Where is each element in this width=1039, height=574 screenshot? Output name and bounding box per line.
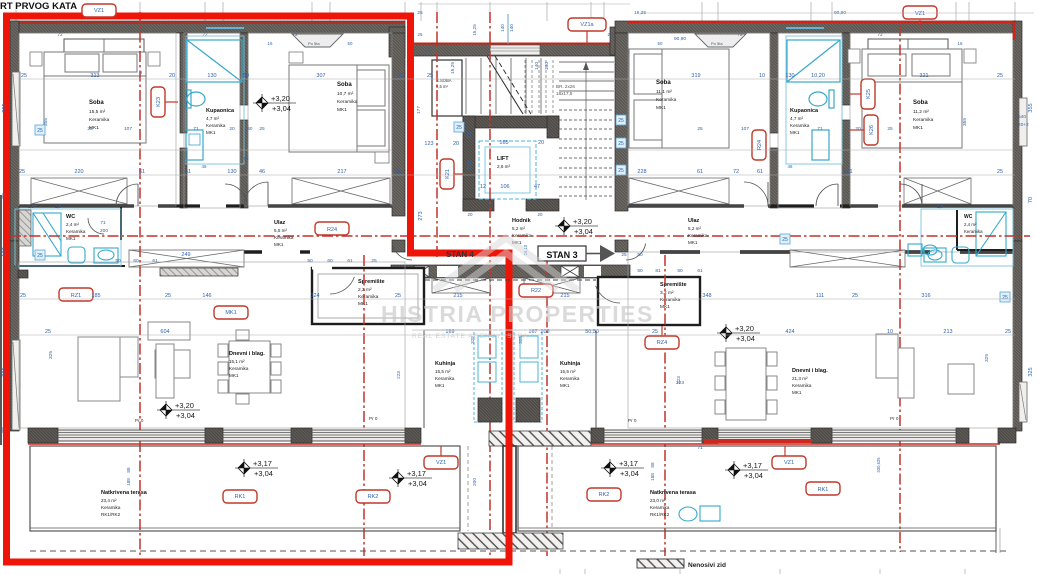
svg-text:20: 20 [468, 212, 473, 217]
label K23 bedroom1 [151, 87, 165, 117]
headboard room1 [64, 39, 144, 52]
nightstand bed1 [30, 52, 42, 66]
center top leader line blue [507, 14, 509, 44]
WC left tiled outline [15, 209, 121, 266]
svg-text:25: 25 [19, 169, 25, 175]
WC left walls [14, 206, 125, 266]
level living right [725, 324, 727, 342]
svg-text:140: 140 [500, 24, 505, 32]
top exterior wall center recessed segment [408, 44, 628, 56]
svg-text:Keramika: Keramika [656, 97, 677, 103]
stair cut diagonal [487, 56, 523, 114]
svg-text:LIFT: LIFT [497, 156, 509, 162]
corridor bottom wall right apt [660, 250, 1013, 253]
central hatched divider band [489, 431, 591, 446]
svg-text:25: 25 [20, 293, 26, 299]
svg-text:VZ1: VZ1 [436, 460, 446, 466]
svg-text:70: 70 [2, 427, 8, 433]
dining table left apt [218, 330, 281, 404]
bathroom1 washer [186, 130, 203, 160]
terrace levels [243, 459, 245, 477]
svg-text:88: 88 [126, 467, 131, 473]
lift shaft walls [463, 116, 559, 128]
left divider wall stub below door [392, 240, 405, 252]
door gap central band 2 [584, 266, 601, 277]
svg-text:88: 88 [650, 462, 655, 468]
svg-text:348: 348 [702, 293, 711, 299]
x-box in central band 2 [561, 266, 579, 277]
svg-text:STAN 3: STAN 3 [546, 250, 577, 260]
svg-text:Keramika: Keramika [337, 99, 358, 105]
sofa right apt [876, 334, 974, 398]
svg-text:185: 185 [91, 293, 100, 299]
svg-text:46: 46 [259, 169, 265, 175]
svg-text:VZ1: VZ1 [784, 460, 794, 466]
svg-text:16: 16 [268, 41, 273, 46]
svg-text:321: 321 [919, 73, 928, 79]
spremiste left room [312, 268, 424, 324]
bed 1 left bedroom [44, 52, 146, 143]
svg-text:Ulaz: Ulaz [688, 218, 700, 224]
label R24 mirror right [752, 130, 766, 160]
svg-text:355: 355 [2, 103, 8, 112]
wardrobe band bedroom4 [904, 178, 971, 204]
svg-text:130: 130 [785, 73, 794, 79]
svg-text:200: 200 [100, 228, 108, 234]
svg-text:Dnevni i blag.: Dnevni i blag. [229, 351, 265, 357]
svg-text:Soba: Soba [913, 100, 928, 106]
label RK2 terrace left [356, 490, 390, 503]
tv unit left apt [148, 322, 190, 398]
svg-text:R22: R22 [531, 288, 541, 294]
wall bathroom1/bedroom2 [240, 33, 248, 105]
svg-text:61: 61 [697, 268, 703, 274]
svg-text:4,7 m²: 4,7 m² [790, 116, 803, 121]
svg-text:71: 71 [100, 220, 106, 226]
svg-text:313: 313 [90, 73, 99, 79]
spremiste left inner line [318, 274, 418, 318]
svg-text:Keramika: Keramika [101, 505, 121, 510]
svg-text:307: 307 [316, 73, 325, 79]
svg-text:165: 165 [499, 140, 508, 146]
label MK1 box [214, 306, 248, 319]
wardrobe band bedroom3 [629, 178, 729, 204]
blue glass section above bathroom2 [786, 27, 824, 29]
svg-text:11,2 m²: 11,2 m² [913, 109, 929, 115]
svg-text:11,1 m²: 11,1 m² [656, 89, 672, 95]
svg-text:25: 25 [618, 168, 624, 174]
svg-text:25: 25 [1002, 295, 1008, 301]
interior guide lines thin [20, 4, 1034, 335]
svg-text:RK1: RK1 [818, 487, 829, 493]
svg-text:RK2: RK2 [599, 492, 610, 498]
bottom window band left apt [28, 428, 58, 443]
svg-text:25: 25 [621, 252, 627, 258]
svg-text:Nenosivi zid: Nenosivi zid [688, 562, 726, 569]
label R24 right apt kitchen [645, 336, 679, 349]
bottom window band right apt [591, 428, 604, 443]
label center band [519, 284, 553, 297]
svg-text:Hodnik: Hodnik [512, 218, 532, 224]
svg-text:61: 61 [757, 169, 763, 175]
svg-text:1,97: 1,97 [28, 204, 37, 209]
svg-text:HISTRIA PROPERTIES: HISTRIA PROPERTIES [381, 301, 654, 327]
svg-text:RK1/RK2: RK1/RK2 [650, 512, 670, 517]
top exterior wall right segment [615, 21, 1016, 33]
window hatch left wall WC [19, 210, 31, 246]
svg-text:Keramika: Keramika [89, 117, 110, 123]
lintel x-band right apt [790, 250, 905, 267]
svg-text:111: 111 [816, 293, 824, 299]
svg-text:RK1: RK1 [235, 494, 246, 500]
left exterior wall [10, 21, 19, 241]
svg-text:25: 25 [887, 126, 893, 132]
balcony door right wall [1019, 382, 1027, 422]
bed 4 right apt [862, 49, 962, 148]
svg-text:Po 5ta: Po 5ta [308, 41, 320, 46]
svg-text:25: 25 [618, 141, 624, 147]
svg-text:72: 72 [733, 169, 739, 175]
svg-text:217: 217 [337, 169, 346, 175]
hatched wall left of spremiste [160, 268, 238, 276]
svg-text:223: 223 [676, 376, 681, 384]
level living left [165, 401, 167, 419]
svg-text:25: 25 [259, 126, 265, 132]
red dashdot horizontal [10, 235, 1030, 237]
svg-text:16: 16 [958, 41, 963, 46]
svg-text:Soba: Soba [656, 80, 671, 86]
svg-text:140: 140 [544, 62, 550, 70]
svg-text:WC: WC [66, 214, 75, 220]
svg-text:71: 71 [817, 126, 823, 132]
terrace slab edge right [518, 446, 996, 531]
bed 3 right apt [629, 49, 729, 148]
svg-text:2,4 m²: 2,4 m² [66, 222, 79, 227]
svg-text:1,0: 1,0 [937, 204, 944, 209]
svg-text:540: 540 [1018, 114, 1026, 120]
svg-text:319: 319 [691, 73, 700, 79]
svg-text:25: 25 [37, 128, 43, 134]
svg-text:K25: K25 [866, 89, 872, 99]
svg-text:MK1: MK1 [435, 383, 445, 388]
WC left hatch pier below [18, 270, 28, 278]
red sill under center window [704, 439, 812, 443]
svg-text:355: 355 [1028, 103, 1034, 112]
svg-text:BR. 2x26: BR. 2x26 [556, 84, 575, 89]
svg-text:25: 25 [427, 73, 433, 79]
svg-text:+3,17: +3,17 [253, 459, 272, 468]
bathroom1 tiled outline [186, 36, 244, 164]
svg-text:VZ1: VZ1 [94, 8, 104, 14]
svg-text:50: 50 [348, 41, 353, 46]
svg-text:5,2 m²: 5,2 m² [512, 226, 525, 231]
center wall red line [412, 43, 628, 45]
svg-text:20: 20 [467, 132, 473, 138]
svg-text:R24: R24 [327, 227, 337, 233]
svg-text:5,5 m²: 5,5 m² [274, 228, 287, 233]
svg-text:12: 12 [480, 184, 486, 190]
svg-text:RZ1: RZ1 [71, 293, 81, 299]
svg-text:106: 106 [500, 184, 509, 190]
svg-text:213: 213 [943, 329, 952, 335]
left connector wall block [389, 27, 405, 57]
window trapezoid room2 [292, 34, 343, 47]
svg-text:MK1: MK1 [790, 130, 800, 135]
svg-text:Soba: Soba [337, 82, 352, 88]
svg-text:15,5 m²: 15,5 m² [560, 369, 576, 374]
lintel x-band 249 left [129, 250, 244, 267]
inner face lines rooms [19, 33, 1013, 428]
svg-text:50: 50 [307, 258, 313, 264]
kitchen counters left apt [474, 330, 502, 422]
WC door [88, 218, 104, 234]
svg-text:321: 321 [843, 169, 852, 175]
svg-text:107: 107 [2, 247, 8, 256]
svg-text:Keramika: Keramika [660, 297, 681, 303]
svg-text:71: 71 [697, 445, 703, 451]
right connector wall block [610, 27, 628, 55]
lintel x-box left of divider [432, 278, 490, 293]
label VZ1 terrace right [772, 456, 806, 469]
right end of band wall [998, 428, 1016, 443]
svg-text:20: 20 [855, 126, 861, 132]
svg-text:23,0 m²: 23,0 m² [650, 498, 666, 503]
sofa left apt [78, 337, 190, 401]
svg-text:VZ1a: VZ1a [580, 22, 594, 28]
svg-text:+3,04: +3,04 [272, 104, 291, 113]
svg-text:K23: K23 [156, 97, 162, 107]
svg-text:60: 60 [248, 126, 253, 131]
central divider wall vertical [503, 446, 516, 533]
svg-text:47: 47 [534, 184, 540, 190]
svg-text:Keramika: Keramika [650, 505, 670, 510]
svg-text:Keramika: Keramika [913, 117, 934, 123]
svg-text:20: 20 [538, 212, 543, 217]
svg-text:Kuhinja: Kuhinja [560, 361, 581, 367]
bathroom2 washer [812, 130, 829, 160]
label K25 right [861, 79, 875, 109]
svg-text:50: 50 [658, 41, 663, 46]
svg-text:325: 325 [2, 367, 8, 376]
bathroom1 toilet [186, 90, 205, 108]
apartment divider wall left (stairwell left) [392, 33, 405, 216]
window left wall bedroom1 [12, 72, 20, 146]
spremiste right door arc [596, 286, 620, 303]
svg-text:50: 50 [637, 268, 643, 274]
stair walk line arrow [585, 62, 587, 200]
svg-text:Kuhinja: Kuhinja [435, 361, 456, 367]
tiny ticks bottom right [560, 569, 965, 574]
svg-text:25: 25 [21, 73, 27, 79]
svg-text:23,4 m²: 23,4 m² [101, 498, 117, 503]
label VZ1 terrace left [424, 456, 458, 469]
svg-text:MK1: MK1 [560, 383, 570, 388]
corridor top wall right apt [628, 204, 1013, 207]
top exterior wall left segment [10, 21, 405, 33]
svg-text:Keramika: Keramika [274, 235, 294, 240]
kitchen counters right apt [514, 330, 542, 422]
terrace divider hatched bar [458, 533, 563, 549]
svg-text:25: 25 [45, 329, 51, 335]
door gap central band 1 [437, 266, 458, 277]
svg-text:MK1: MK1 [225, 310, 236, 316]
svg-text:249: 249 [181, 252, 190, 258]
hodnik level symbol [563, 217, 565, 235]
svg-text:K26: K26 [869, 125, 875, 135]
label RZ1 [59, 288, 93, 301]
bathroom2 toilet [809, 90, 834, 108]
svg-text:25: 25 [997, 169, 1003, 175]
svg-text:Ulaz: Ulaz [274, 220, 286, 226]
svg-text:MK1: MK1 [688, 240, 698, 245]
svg-text:50: 50 [395, 169, 401, 175]
svg-text:9: 9 [140, 70, 143, 76]
svg-text:188: 188 [650, 473, 655, 481]
svg-text:STAN 4: STAN 4 [446, 250, 474, 259]
svg-text:520+2: 520+2 [1015, 122, 1029, 128]
svg-text:123: 123 [424, 141, 433, 147]
svg-text:Pr 0: Pr 0 [890, 416, 899, 421]
svg-text:15,25: 15,25 [472, 24, 477, 36]
svg-text:MK1: MK1 [274, 242, 284, 247]
svg-text:325: 325 [1028, 367, 1034, 376]
svg-text:+3,04: +3,04 [408, 479, 427, 488]
svg-text:18x17,5: 18x17,5 [556, 91, 573, 96]
label VZ1a top center [568, 18, 606, 31]
svg-text:25: 25 [652, 329, 658, 335]
svg-text:15,5 m²: 15,5 m² [435, 369, 451, 374]
svg-text:325: 325 [48, 351, 54, 359]
svg-text:REAL ESTATE AGENCY ISTRA: REAL ESTATE AGENCY ISTRA [412, 333, 529, 340]
svg-text:Spremište: Spremište [358, 279, 385, 285]
x-box in central band 1 [413, 266, 429, 277]
wardrobe band bedroom1 [31, 178, 127, 204]
svg-text:RK2: RK2 [368, 494, 379, 500]
corridor top wall left apt [19, 204, 392, 207]
stan3 label [538, 246, 586, 261]
svg-text:2,4 m²: 2,4 m² [964, 222, 977, 227]
corridor bottom wall left apt [244, 250, 310, 253]
svg-text:165: 165 [467, 160, 473, 169]
svg-text:50: 50 [115, 258, 121, 264]
svg-text:25: 25 [782, 237, 788, 243]
svg-text:+3,20: +3,20 [271, 94, 290, 103]
svg-text:Pr 0: Pr 0 [135, 418, 144, 423]
label K26 right [864, 115, 878, 145]
svg-text:325: 325 [984, 354, 990, 362]
kitchen wall partition right apt [595, 330, 597, 428]
bathroom2 shower [787, 40, 840, 82]
svg-text:20: 20 [453, 141, 459, 147]
bathroom1 shower [187, 40, 242, 82]
svg-text:Pr 0: Pr 0 [369, 416, 378, 421]
svg-text:1,0: 1,0 [55, 204, 62, 209]
svg-text:273: 273 [418, 211, 424, 220]
apartment entrance doors [392, 244, 412, 261]
svg-text:220: 220 [74, 169, 83, 175]
bed 2 left apt [289, 65, 389, 152]
svg-text:223: 223 [396, 371, 401, 379]
lift car [479, 141, 536, 199]
svg-text:Kupaonica: Kupaonica [206, 108, 235, 114]
svg-text:25: 25 [456, 125, 462, 131]
nightstand bed2 [289, 52, 303, 63]
svg-text:R24: R24 [757, 140, 763, 150]
svg-text:10,20: 10,20 [811, 73, 825, 79]
svg-text:+3,17: +3,17 [743, 461, 762, 470]
svg-text:2,6 m²: 2,6 m² [497, 164, 510, 169]
svg-text:Natkrivena terasa: Natkrivena terasa [650, 490, 697, 496]
svg-text:424: 424 [785, 329, 794, 335]
svg-text:RZ4: RZ4 [657, 340, 667, 346]
svg-text:25: 25 [425, 48, 431, 54]
svg-text:5,2 m²: 5,2 m² [688, 226, 701, 231]
stairwell right wall [615, 33, 628, 211]
svg-text:Keramika: Keramika [964, 229, 983, 234]
label RK1 terrace left [223, 490, 257, 503]
svg-text:10,7 m²: 10,7 m² [337, 91, 354, 97]
svg-text:+3,04: +3,04 [744, 471, 763, 480]
svg-text:25: 25 [417, 10, 423, 16]
svg-text:Keramika: Keramika [560, 376, 580, 381]
svg-text:Soba: Soba [89, 100, 104, 106]
svg-text:Keramika: Keramika [66, 229, 86, 234]
lintel x-box right of divider [524, 278, 580, 293]
svg-text:130: 130 [227, 169, 236, 175]
store 5,5m2 room [432, 60, 462, 116]
svg-text:Keramika: Keramika [790, 123, 810, 128]
svg-text:50: 50 [243, 73, 249, 79]
svg-text:60: 60 [133, 258, 139, 264]
svg-text:70: 70 [2, 193, 8, 199]
svg-text:Natkrivena terasa: Natkrivena terasa [101, 490, 148, 496]
svg-text:Keramika: Keramika [229, 366, 249, 371]
left terrace slab inner line [30, 527, 460, 529]
svg-text:+3,20: +3,20 [735, 324, 754, 333]
svg-text:Keramika: Keramika [792, 383, 812, 388]
svg-text:25: 25 [418, 32, 423, 37]
terrace slab edge left [30, 446, 460, 531]
red line top right corner turn [1013, 22, 1016, 40]
red dashdot grid lines vertical [140, 12, 900, 556]
dining table right apt [715, 348, 777, 420]
blue tags 25 [616, 115, 626, 125]
wardrobe band bedroom2 [292, 178, 390, 204]
svg-text:46: 46 [788, 164, 793, 169]
svg-text:107: 107 [124, 126, 132, 132]
wall bedroom1/bathroom1 [180, 33, 187, 133]
svg-text:21,3 m²: 21,3 m² [792, 376, 808, 381]
svg-text:MK1: MK1 [913, 125, 923, 131]
wall bathroom2/bedroom4 [842, 33, 850, 105]
svg-text:5,5 m²: 5,5 m² [436, 84, 448, 89]
svg-text:25: 25 [37, 253, 43, 259]
stan3 arrow [586, 253, 600, 255]
nightstands bed4 [848, 49, 860, 63]
svg-text:324: 324 [310, 293, 319, 299]
red sill line right band [591, 443, 1000, 445]
svg-text:Kupaonica: Kupaonica [790, 108, 819, 114]
svg-text:25: 25 [371, 258, 377, 264]
svg-text:10: 10 [759, 73, 765, 79]
svg-text:215: 215 [560, 293, 569, 299]
right exterior wall [1013, 21, 1022, 241]
label R24 corridor [315, 222, 349, 235]
svg-text:140: 140 [534, 62, 540, 70]
stair steps solid right flight upper [559, 62, 614, 100]
svg-text:K21: K21 [445, 169, 451, 179]
bathroom2 tiled outline [786, 36, 842, 164]
